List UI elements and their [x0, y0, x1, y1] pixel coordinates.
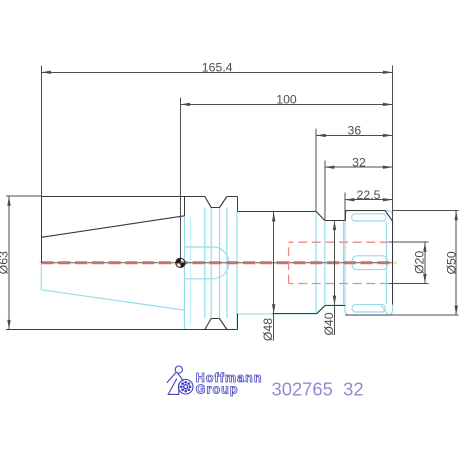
svg-text:22.5: 22.5 [357, 188, 381, 202]
svg-text:Ø48: Ø48 [261, 318, 275, 341]
svg-text:Ø63: Ø63 [0, 251, 11, 274]
svg-text:Ø50: Ø50 [445, 251, 459, 274]
svg-text:36: 36 [348, 124, 362, 138]
svg-text:302765 32: 302765 32 [272, 378, 364, 399]
svg-text:165.4: 165.4 [202, 61, 233, 75]
svg-text:Ø40: Ø40 [322, 312, 336, 335]
svg-text:Group: Group [196, 383, 239, 397]
svg-text:32: 32 [352, 156, 366, 170]
svg-text:Ø20: Ø20 [413, 251, 427, 274]
svg-text:100: 100 [276, 93, 297, 107]
